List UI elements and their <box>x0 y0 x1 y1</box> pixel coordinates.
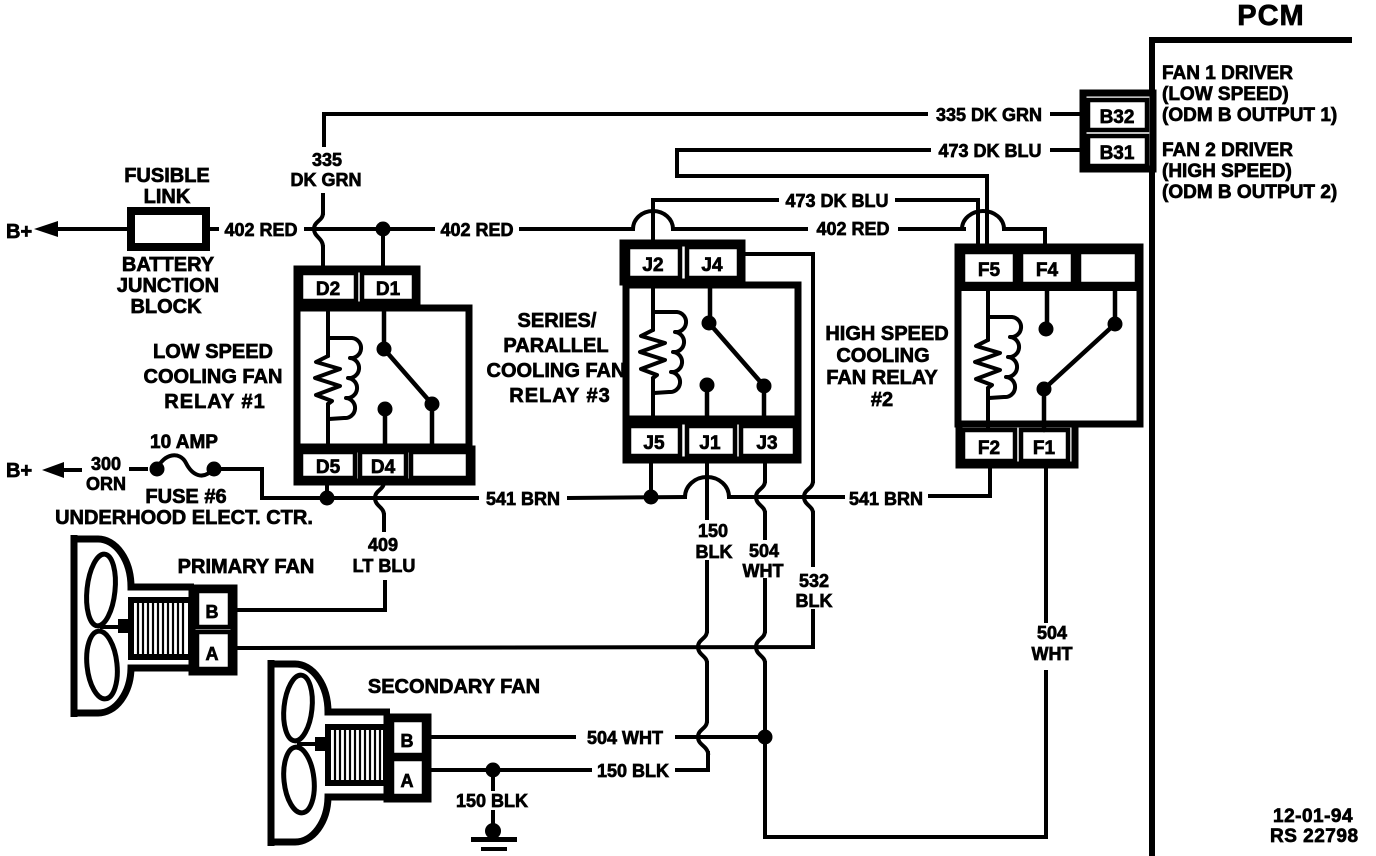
svg-text:150 BLK: 150 BLK <box>456 791 528 811</box>
crossover: 504 WHT over 541 BRN <box>756 481 765 513</box>
svg-text:BATTERY: BATTERY <box>122 254 215 276</box>
relay K3 switch <box>700 285 772 421</box>
label 300 ORN <box>86 454 126 494</box>
wire 402 RED segment to hop <box>900 227 964 231</box>
svg-text:D1: D1 <box>376 279 401 300</box>
svg-text:WHT: WHT <box>1032 644 1073 664</box>
secondary fan shroud <box>271 660 390 846</box>
svg-text:BLK: BLK <box>796 591 833 611</box>
svg-text:150 BLK: 150 BLK <box>597 761 669 781</box>
wire ground drop <box>491 770 495 826</box>
wire J2 drop <box>651 200 655 243</box>
svg-text:(ODM B OUTPUT 1): (ODM B OUTPUT 1) <box>1162 105 1337 126</box>
svg-text:473 DK BLU: 473 DK BLU <box>785 191 888 211</box>
svg-text:PARALLEL: PARALLEL <box>503 335 608 357</box>
svg-text:BLK: BLK <box>696 542 733 562</box>
label 150 BLK (J1) <box>696 521 733 562</box>
wire 402 RED segment to hop <box>521 227 633 231</box>
svg-text:COOLING FAN: COOLING FAN <box>144 366 283 388</box>
primary fan blade (bottom) <box>84 630 121 701</box>
svg-text:504: 504 <box>1037 623 1067 643</box>
pin J3 <box>741 426 795 456</box>
svg-text:B: B <box>206 602 219 622</box>
wire 473 DK BLU branch to J2 <box>655 198 777 202</box>
pin A (secondary fan) <box>392 759 424 796</box>
junction dot D5 / 541 BRN <box>320 491 335 506</box>
svg-text:LT BLU: LT BLU <box>353 556 416 576</box>
crossover: 409 LT BLU over 541 BRN <box>375 482 384 515</box>
relay K1 body <box>297 308 469 447</box>
svg-text:541 BRN: 541 BRN <box>486 489 560 509</box>
svg-text:402 RED: 402 RED <box>440 220 513 240</box>
svg-text:DK GRN: DK GRN <box>291 170 362 190</box>
PCM pin function labels <box>1162 63 1337 203</box>
junction dot J5 / 541 BRN <box>644 490 659 505</box>
svg-text:10 AMP: 10 AMP <box>150 432 218 453</box>
label 504 WHT (J3) <box>743 541 784 581</box>
pin F1 <box>1021 430 1068 461</box>
secondary fan hub <box>297 737 328 751</box>
svg-text:UNDERHOOD ELECT. CTR.: UNDERHOOD ELECT. CTR. <box>55 507 313 529</box>
junction dot ground branch <box>486 763 501 778</box>
label 335 DK GRN (vertical drop) <box>291 150 362 190</box>
crossover: 150 BLK over fan A rail <box>698 631 707 663</box>
wire 541 BRN to F2 <box>930 465 990 496</box>
svg-text:WHT: WHT <box>743 561 784 581</box>
svg-text:D4: D4 <box>371 457 396 478</box>
svg-text:(HIGH SPEED): (HIGH SPEED) <box>1162 161 1292 182</box>
svg-text:FUSE #6: FUSE #6 <box>145 486 226 508</box>
svg-text:J1: J1 <box>699 433 721 454</box>
svg-text:FAN 1 DRIVER: FAN 1 DRIVER <box>1162 63 1293 84</box>
svg-text:12-01-94: 12-01-94 <box>1273 806 1353 827</box>
relay K3 top terminal strip <box>623 243 742 282</box>
connector B32/B31 outer block <box>1083 93 1153 169</box>
svg-text:B31: B31 <box>1100 143 1135 164</box>
svg-text:PRIMARY FAN: PRIMARY FAN <box>178 556 315 578</box>
svg-text:B32: B32 <box>1100 107 1135 128</box>
pin A (primary fan) <box>197 632 230 669</box>
wire 402 RED corner down to F4 <box>1004 229 1045 253</box>
svg-text:(ODM B OUTPUT 2): (ODM B OUTPUT 2) <box>1162 182 1337 203</box>
svg-text:#2: #2 <box>871 389 893 411</box>
svg-text:B: B <box>401 731 414 751</box>
date 12-01-94 / RS 22798 <box>1270 806 1359 847</box>
relay K2 bottom terminal strip <box>959 424 1075 465</box>
pin D2 <box>301 273 356 301</box>
svg-text:504 WHT: 504 WHT <box>587 728 663 748</box>
relay K1 bottom terminal strip <box>297 449 472 482</box>
wire 541 BRN rail <box>327 496 477 500</box>
svg-text:RELAY #3: RELAY #3 <box>509 385 610 407</box>
svg-text:ORN: ORN <box>86 474 126 494</box>
primary fan motor (hatched) <box>131 600 191 657</box>
label BATTERY JUNCTION BLOCK <box>117 254 219 318</box>
svg-text:J4: J4 <box>701 255 723 276</box>
svg-text:B+: B+ <box>6 221 32 243</box>
pin D1 <box>362 273 414 301</box>
wire F1 drop <box>1044 465 1048 621</box>
svg-text:FAN RELAY: FAN RELAY <box>826 367 938 389</box>
node B+ (top) <box>6 221 131 243</box>
wire 541 BRN segment <box>569 497 685 498</box>
pin F2 <box>963 430 1015 461</box>
svg-text:(LOW SPEED): (LOW SPEED) <box>1162 84 1289 105</box>
label 504 WHT (F1) <box>1032 623 1073 664</box>
svg-text:D2: D2 <box>316 279 340 300</box>
relay K3 coil <box>640 285 686 421</box>
wire 541 BRN segment <box>729 495 843 499</box>
svg-text:BLOCK: BLOCK <box>130 296 202 318</box>
crossover: 335 DK GRN over 402 RED <box>314 213 323 247</box>
wire 335 DK GRN vertical drop to D2 <box>321 195 325 213</box>
secondary fan motor (hatched) <box>328 727 386 783</box>
svg-text:J2: J2 <box>642 255 663 276</box>
svg-text:J5: J5 <box>643 433 665 454</box>
pin D4 <box>360 452 406 478</box>
label 532 BLK <box>796 571 833 611</box>
wire 150 BLK (J1 down) <box>707 460 708 770</box>
label 409 LT BLU <box>353 535 416 576</box>
fuse F6 10A <box>131 455 222 476</box>
svg-text:402 RED: 402 RED <box>224 220 297 240</box>
svg-text:504: 504 <box>749 541 779 561</box>
wire primary fan A rail (to 532 BLK) <box>236 643 813 648</box>
relay K2 coil <box>975 288 1021 430</box>
wire D1 feed <box>381 229 385 268</box>
label HIGH SPEED COOLING FAN RELAY #2 <box>825 323 948 411</box>
hop: 402 RED over F5 wire <box>962 211 1004 229</box>
wire secondary fan A (150 BLK) <box>428 768 486 772</box>
relay K1 switch <box>377 308 440 449</box>
wire 504 WHT bottom run to F1 <box>765 672 1046 837</box>
secondary fan connector block <box>387 717 428 799</box>
PCM boundary line <box>1149 38 1352 856</box>
svg-text:SERIES/: SERIES/ <box>518 310 597 332</box>
crossover: 504 WHT over fan A rail <box>756 631 765 663</box>
svg-text:LINK: LINK <box>144 186 191 208</box>
hop: 402 RED over J2 wire <box>633 211 673 229</box>
svg-text:JUNCTION: JUNCTION <box>117 275 219 297</box>
svg-text:LOW SPEED: LOW SPEED <box>153 341 273 363</box>
wire secondary fan B (504 WHT) <box>428 735 574 739</box>
wire 335 DK GRN into D2 <box>321 247 325 268</box>
pin F5 <box>963 252 1015 284</box>
relay K3 bottom terminal strip <box>626 421 798 460</box>
svg-text:B+: B+ <box>6 460 32 482</box>
svg-text:409: 409 <box>368 535 398 555</box>
svg-text:RELAY #1: RELAY #1 <box>164 391 265 413</box>
svg-text:300: 300 <box>91 454 121 474</box>
label SERIES/PARALLEL COOLING FAN RELAY #3 <box>487 310 626 407</box>
pin J5 <box>629 426 680 456</box>
svg-text:F5: F5 <box>978 260 1001 281</box>
svg-text:SECONDARY FAN: SECONDARY FAN <box>368 676 540 698</box>
secondary fan blade (bottom) <box>281 746 318 815</box>
fusible link (battery junction block) <box>131 211 206 247</box>
ground G101 <box>471 823 517 851</box>
svg-text:532: 532 <box>799 571 829 591</box>
svg-text:PCM: PCM <box>1237 0 1304 32</box>
pin D5 <box>301 452 355 478</box>
wire J5 below strip <box>649 460 653 497</box>
primary fan shroud <box>74 535 194 717</box>
wire 504 WHT (J3 down) <box>763 460 767 730</box>
svg-text:COOLING: COOLING <box>836 345 929 367</box>
svg-text:473 DK BLU: 473 DK BLU <box>938 141 1041 161</box>
svg-text:541 BRN: 541 BRN <box>849 489 923 509</box>
hop: 541 BRN over 150 BLK <box>685 477 729 497</box>
svg-text:A: A <box>206 644 219 664</box>
label FUSIBLE LINK <box>124 165 210 208</box>
pin J4 <box>687 247 739 278</box>
relay K3 body <box>626 285 798 419</box>
junction dot 504 WHT / secondary fan B <box>758 730 773 745</box>
secondary fan blade (top) <box>281 674 316 743</box>
svg-text:RS 22798: RS 22798 <box>1270 826 1359 847</box>
pin (blank) <box>411 452 468 478</box>
wire fuse to 541 BRN rail <box>221 469 320 498</box>
wire 402 RED segment <box>673 227 806 231</box>
relay K1 coil <box>315 308 361 449</box>
crossover: 150 BLK over 504 WHT <box>698 721 708 753</box>
pin B32 <box>1088 100 1147 130</box>
pin J1 <box>687 426 735 456</box>
svg-text:335 DK GRN: 335 DK GRN <box>936 105 1042 125</box>
primary fan connector block <box>192 588 234 672</box>
svg-text:D5: D5 <box>316 457 341 478</box>
svg-text:F1: F1 <box>1033 438 1056 459</box>
svg-text:A: A <box>401 771 414 791</box>
svg-text:J3: J3 <box>756 433 777 454</box>
relay K2 switch <box>1037 288 1123 430</box>
svg-text:COOLING FAN: COOLING FAN <box>487 360 626 382</box>
pin F4 <box>1021 252 1073 284</box>
pin (blank top) <box>1079 252 1137 284</box>
svg-text:402 RED: 402 RED <box>816 219 889 239</box>
node B+ (lower) <box>6 460 80 482</box>
wire 335 DK GRN horizontal to B32 <box>324 114 1082 145</box>
svg-text:FUSIBLE: FUSIBLE <box>124 165 210 187</box>
svg-text:FAN 2 DRIVER: FAN 2 DRIVER <box>1162 140 1293 161</box>
relay K2 body <box>958 247 1140 424</box>
wire 532 BLK (J4 strip to fan A rail) <box>742 254 813 643</box>
label LOW SPEED COOLING FAN RELAY #1 <box>144 341 283 413</box>
svg-text:335: 335 <box>312 150 342 170</box>
svg-text:F4: F4 <box>1036 260 1059 281</box>
pin B (primary fan) <box>197 591 230 627</box>
primary fan blade (top) <box>83 553 118 628</box>
svg-text:HIGH SPEED: HIGH SPEED <box>825 323 948 345</box>
wire 409 LT BLU (D4 to primary fan B) <box>236 515 385 610</box>
wire 402 RED (fusible link to relays) <box>206 227 217 231</box>
relay K1 top terminal strip <box>297 269 417 305</box>
wire D5 below strip <box>325 482 329 498</box>
pin B31 <box>1088 136 1147 166</box>
primary fan hub <box>100 619 131 633</box>
pin B (secondary fan) <box>392 720 424 755</box>
wire 473 DK BLU from B31 <box>677 150 1082 252</box>
svg-text:150: 150 <box>698 521 728 541</box>
svg-text:F2: F2 <box>978 438 1000 459</box>
crossover: 532 BLK over 541 BRN <box>804 481 813 513</box>
junction dot 402 RED / D1 <box>376 222 391 237</box>
pin J2 <box>628 247 680 278</box>
